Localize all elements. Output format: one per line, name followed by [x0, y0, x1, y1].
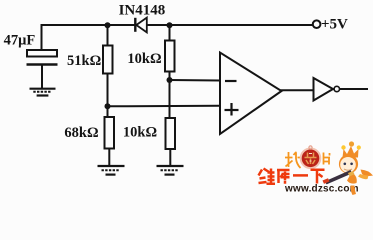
char XIA: [311, 170, 325, 184]
resistor R1 51k: [103, 46, 113, 74]
red text WEI KU YI XIA: [259, 169, 325, 184]
wire: R2 bottom down to R4 top (passes over node A wire): [169, 72, 171, 119]
node: junction top rail / R2: [167, 22, 173, 28]
resistor R2 10k upper: [165, 41, 175, 72]
wire: node B to op-amp inverting input: [170, 79, 221, 82]
wire: top rail drop to R1 (51k): [107, 25, 109, 46]
svg-text:IN4148: IN4148: [119, 2, 166, 18]
wire: node A to op-amp non-inverting input (crossover, no dot): [108, 105, 221, 108]
ground (below R4): [157, 166, 184, 175]
resistor R4 10k lower: [166, 118, 176, 149]
svg-text:47μF: 47μF: [4, 33, 36, 49]
char YI: [293, 174, 308, 177]
power terminal +5V: [313, 20, 321, 28]
diode D1 IN4148 (cathode bar left, pointing left): [135, 18, 147, 33]
inverter U2 (triangle with bubble): [314, 78, 340, 101]
ground (below R3): [98, 166, 125, 175]
watermark: dzsc.com logo: [259, 141, 373, 195]
node: junction R2/R4/op-amp - input wire: [167, 77, 173, 83]
wire: top rail right segment (diode anode to +5V terminal): [147, 24, 314, 26]
op-amp U1 (comparator triangle): [220, 53, 282, 135]
outlined char PIAN: [324, 153, 331, 165]
svg-text:+5V: +5V: [321, 16, 348, 32]
wire: inverter output: [340, 88, 369, 90]
svg-text:51kΩ: 51kΩ: [67, 53, 101, 69]
red seal circle with XIN: [301, 146, 321, 168]
mascot doll: [323, 141, 373, 195]
char KU: [277, 170, 290, 184]
svg-text:10kΩ: 10kΩ: [123, 124, 157, 140]
ground (below C1): [30, 89, 56, 96]
wire: R1 bottom down to R3 top: [107, 74, 109, 118]
wire: capacitor bottom to ground: [41, 65, 43, 89]
outlined char ZHAO: [285, 152, 302, 168]
svg-text:www.dzsc.com: www.dzsc.com: [284, 183, 359, 194]
node: junction R1/R3/op-amp + input wire: [105, 103, 111, 109]
capacitor C1 47uF (polarized, top plate box): [27, 50, 58, 65]
wire: R4 bottom to ground: [169, 149, 171, 166]
node: junction top rail / R1: [105, 22, 111, 28]
wire: top rail drop to R2 (10k upper): [169, 25, 171, 41]
wire: op-amp output to inverter input: [281, 89, 314, 91]
svg-text:10kΩ: 10kΩ: [127, 51, 161, 67]
wire: top rail left segment (cap corner to diode cathode): [42, 25, 136, 50]
char WEI: [259, 169, 276, 184]
resistor R3 68k: [105, 117, 115, 149]
svg-text:68kΩ: 68kΩ: [64, 125, 98, 141]
wire: R3 bottom to ground: [108, 149, 110, 167]
